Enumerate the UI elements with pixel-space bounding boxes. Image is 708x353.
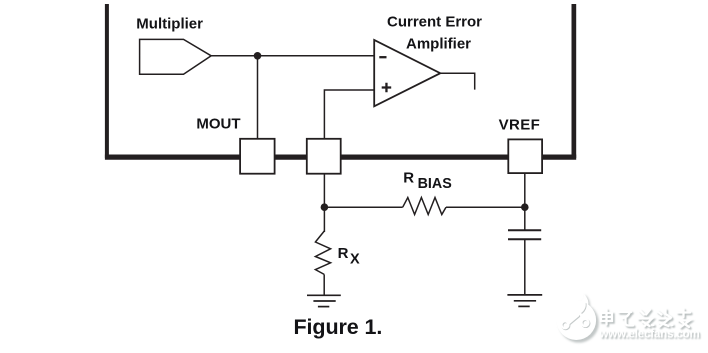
svg-text:R: R	[403, 169, 414, 186]
pin box VREF	[508, 139, 542, 173]
svg-text:MOUT: MOUT	[196, 116, 240, 133]
wire: cap to ground	[524, 239, 526, 295]
svg-text:www.elecfans.com: www.elecfans.com	[599, 329, 700, 341]
wire: multiplier output to inverting input	[211, 55, 374, 57]
IC boundary left edge	[105, 4, 109, 158]
wire: bias node horizontal right segment	[446, 206, 525, 208]
IC boundary right edge	[571, 4, 576, 158]
svg-text:Figure 1.: Figure 1.	[294, 315, 383, 339]
watermark chinese text 电子发烧友	[601, 309, 692, 329]
resistor R_X zigzag	[315, 231, 330, 274]
ground under R_X	[307, 295, 341, 306]
ground under capacitor	[507, 295, 542, 307]
capacitor bottom plate	[508, 238, 541, 240]
pin box (non-inverting input pin)	[307, 139, 341, 174]
watermark url text	[599, 329, 701, 342]
svg-text:R: R	[338, 245, 349, 262]
multiplier symbol	[140, 39, 212, 74]
svg-text:VREF: VREF	[499, 117, 541, 134]
resistor R_BIAS zigzag	[403, 198, 446, 215]
svg-text:Current Error: Current Error	[387, 14, 482, 31]
pin box MOUT	[240, 139, 275, 174]
wire: bias node horizontal left segment	[324, 206, 402, 208]
svg-text:Amplifier: Amplifier	[406, 35, 471, 52]
op-amp plus pin mark	[382, 83, 392, 93]
wire: non-inverting input	[324, 90, 374, 140]
svg-text:BIAS: BIAS	[418, 176, 452, 192]
wire: pin2 down to Rx node	[323, 174, 325, 232]
op-amp U1 current error amplifier	[374, 40, 440, 106]
svg-text:Multiplier: Multiplier	[136, 15, 203, 32]
wire: VREF pin down to cap	[524, 173, 526, 231]
op-amp minus pin mark	[379, 56, 386, 58]
node dot right of R_BIAS	[521, 203, 529, 211]
capacitor top plate	[508, 229, 541, 231]
wire: junction down to MOUT pin	[257, 56, 259, 140]
node dot left of R_BIAS	[321, 203, 329, 211]
node junction dot	[254, 52, 262, 60]
wire: Rx to ground	[323, 274, 325, 295]
svg-text:X: X	[350, 252, 360, 268]
wire: op-amp output stub	[440, 73, 474, 89]
IC boundary bottom edge	[105, 155, 576, 160]
